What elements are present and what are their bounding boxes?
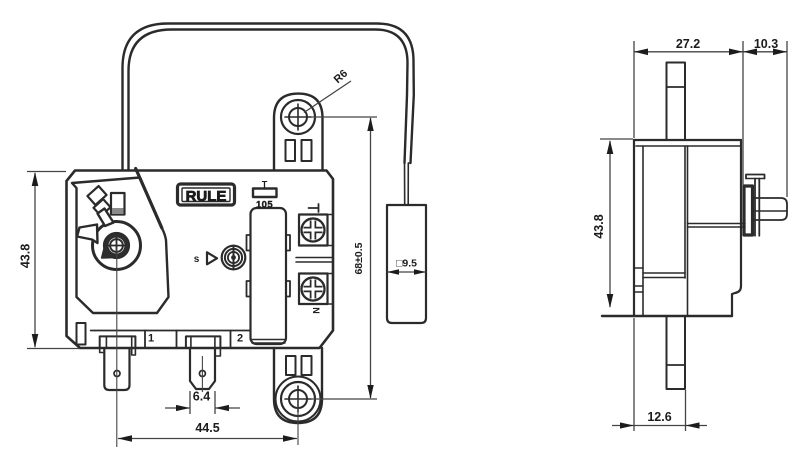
svg-text:N: N	[311, 307, 321, 314]
svg-text:s: s	[194, 254, 200, 265]
svg-text:2: 2	[237, 333, 243, 345]
svg-text:T: T	[262, 180, 268, 190]
svg-text:105: 105	[256, 200, 273, 211]
svg-text:68±0.5: 68±0.5	[353, 242, 365, 274]
svg-text:10.3: 10.3	[754, 37, 778, 51]
svg-text:□9.5: □9.5	[396, 258, 417, 270]
svg-text:1: 1	[148, 333, 154, 345]
svg-text:6.4: 6.4	[193, 390, 210, 404]
svg-text:43.8: 43.8	[18, 244, 32, 268]
svg-text:44.5: 44.5	[195, 421, 219, 435]
svg-text:RULE: RULE	[186, 188, 227, 205]
svg-text:27.2: 27.2	[676, 37, 700, 51]
svg-text:12.6: 12.6	[647, 410, 671, 424]
svg-text:43.8: 43.8	[592, 214, 606, 238]
